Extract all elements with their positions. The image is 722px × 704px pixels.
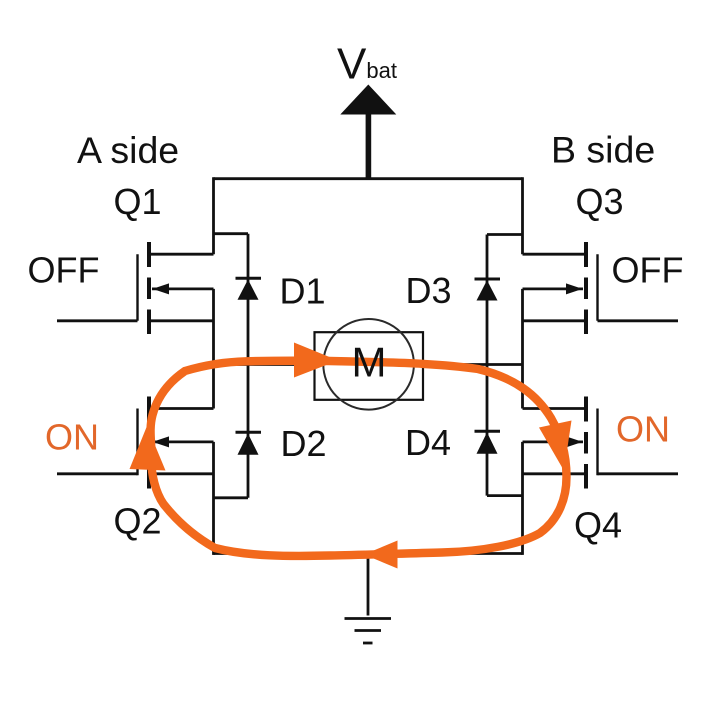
wire D1 top branch — [214, 232, 249, 235]
wire right mid vertical (Q3 source node) — [521, 289, 524, 409]
arrowhead current down (through Q4) — [539, 421, 572, 471]
motor M symbol — [315, 319, 424, 410]
wire left diode vertical — [247, 234, 250, 498]
transistor Q4 — [523, 397, 679, 489]
diode D4 — [475, 431, 501, 454]
svg-text:Q4: Q4 — [574, 505, 622, 546]
svg-text:M: M — [352, 339, 387, 386]
wire D3 top branch — [487, 233, 523, 236]
wire D2 bottom branch — [214, 496, 249, 499]
svg-text:Q3: Q3 — [576, 181, 624, 222]
arrowhead current left (bottom rail) — [364, 541, 398, 569]
wire D4 bottom branch — [487, 494, 523, 497]
wire orange current loop — [151, 361, 567, 556]
wire motor left — [214, 363, 315, 366]
wire left mid vertical (Q1 source node) — [212, 289, 215, 409]
svg-text:A side: A side — [77, 129, 179, 171]
diode D1 — [236, 278, 262, 300]
arrowhead current up (through Q2) — [130, 426, 166, 471]
ground — [345, 554, 392, 644]
svg-text:OFF: OFF — [28, 249, 100, 290]
wire left upper vertical (top rail to Q1 drain) — [212, 177, 215, 254]
arrowhead current right (through motor) — [294, 343, 338, 378]
wire motor right — [423, 363, 523, 366]
svg-text:Vbat: Vbat — [337, 39, 397, 88]
diode D3 — [475, 279, 501, 301]
svg-text:B side: B side — [551, 129, 655, 171]
wire bottom rail — [214, 552, 523, 555]
svg-text:Q2: Q2 — [114, 501, 162, 542]
svg-text:OFF: OFF — [612, 249, 684, 290]
transistor Q2 — [57, 397, 214, 489]
wire left lower vertical (Q2 source node) — [212, 442, 215, 555]
power symbol Vbat arrow — [340, 85, 396, 115]
svg-text:ON: ON — [616, 408, 670, 449]
svg-text:D4: D4 — [405, 422, 451, 463]
svg-text:D3: D3 — [406, 270, 452, 311]
wire right diode vertical — [486, 235, 489, 496]
svg-text:D2: D2 — [281, 423, 327, 464]
wire right upper vertical (top rail to Q3 drain) — [521, 177, 524, 254]
svg-text:Q1: Q1 — [114, 181, 162, 222]
transistor Q1 — [57, 242, 214, 334]
diode D2 — [236, 432, 262, 455]
wire Vbat stem — [366, 111, 372, 180]
wire right lower vertical (Q4 source node) — [521, 442, 524, 555]
wire top rail — [214, 177, 523, 180]
transistor Q3 — [523, 242, 679, 334]
svg-text:D1: D1 — [280, 271, 326, 312]
svg-text:ON: ON — [45, 416, 99, 457]
